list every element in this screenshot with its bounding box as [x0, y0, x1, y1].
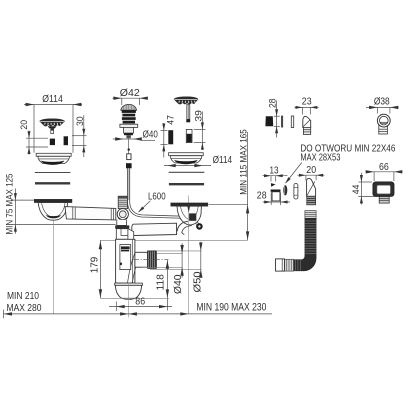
bottom line left end tick — [3, 310, 5, 319]
dimension O114 right: line and arrows — [164, 165, 211, 167]
pull rod dot — [128, 148, 130, 150]
strainer pin tip (black) — [186, 119, 190, 122]
washer bar (dark) — [281, 116, 283, 128]
overflow cover (rounded, dark) — [373, 182, 394, 197]
svg-text:20: 20 — [306, 165, 316, 176]
siphon neck — [117, 220, 127, 226]
siphon outlet ribbed socket — [148, 251, 157, 269]
svg-text:179: 179 — [89, 256, 100, 273]
bottom dimension line (common) — [4, 313, 272, 315]
left pipe joint lines — [72, 207, 74, 219]
right drain elbow arcs — [177, 221, 188, 231]
extension line O50 bottom — [150, 268, 201, 270]
svg-text:Ø38: Ø38 — [374, 97, 390, 108]
strainer bump left — [48, 126, 57, 128]
dimension 66: line, ext, arrows — [366, 172, 403, 181]
right drain inner block — [189, 213, 196, 220]
siphon tee right expansion — [128, 229, 134, 240]
right drain cable pulley — [196, 223, 203, 230]
datum line under cabinet — [100, 239, 247, 241]
dimension MIN 75 MAX 125: line, ext lines, arrows — [11, 189, 116, 234]
svg-text:Ø40: Ø40 — [143, 130, 158, 141]
svg-text:44: 44 — [351, 184, 362, 194]
overflow elbow front view: circles — [377, 114, 390, 127]
overflow cover inner window — [377, 185, 391, 194]
washer bar (outlined) — [291, 116, 293, 128]
extension line cup bottom — [100, 297, 169, 299]
svg-text:13: 13 — [270, 165, 279, 176]
right drain flange bar — [171, 203, 208, 206]
svg-text:28: 28 — [257, 191, 267, 202]
overflow clip wedge (black) — [271, 183, 276, 187]
dimension 20b: line, ext, arrows — [298, 175, 325, 180]
flange right black band — [174, 160, 197, 165]
extension line O40 top — [157, 252, 183, 254]
right drain insert arrow — [187, 204, 190, 212]
svg-text:L600: L600 — [148, 192, 166, 203]
svg-text:66: 66 — [379, 162, 389, 173]
siphon main body — [116, 239, 135, 283]
dimension 23: line, ext, arrows — [295, 107, 319, 114]
hook part B lower ribs — [307, 196, 316, 205]
corrugated hose: light rings left — [284, 259, 293, 271]
svg-text:MAX 280: MAX 280 — [7, 303, 42, 314]
siphon internal curve lines — [127, 253, 135, 291]
dimension MIN 115 MAX 165: line, ext, arrows — [209, 132, 248, 240]
siphon outlet pipe — [135, 252, 148, 267]
gasket right thick — [169, 183, 204, 185]
svg-text:Ø50: Ø50 — [192, 271, 203, 292]
siphon trap cup rim — [115, 283, 143, 285]
siphon clean-out box — [120, 245, 131, 270]
corrugated hose: light top rings — [305, 211, 316, 219]
label L600: leader and arrowhead — [139, 201, 151, 212]
gasket left thin — [35, 172, 71, 174]
svg-text:Ø114: Ø114 — [213, 155, 233, 166]
dimension 28 gasket: line, ticks, arrows — [274, 101, 280, 138]
pop-up knob cap — [121, 104, 137, 110]
dimension O40 pipe: line and arrows — [181, 243, 183, 277]
strainer basket left (dome) — [40, 119, 65, 127]
dimension 20: line, ticks, arrows — [26, 131, 48, 155]
left drain bowl dark band — [46, 215, 61, 219]
siphon adjuster wheel — [117, 209, 128, 220]
dimension 28b: line, ext, arrows — [263, 192, 290, 205]
corrugated hose: white end cap — [276, 259, 285, 271]
cup centerline — [128, 284, 130, 318]
svg-text:118: 118 — [155, 274, 166, 291]
left drain bowl — [38, 203, 67, 221]
dimension O114 left: line and arrows — [24, 105, 82, 153]
cable sheath (vertical + bend + horizontal run) — [128, 168, 130, 200]
washer pill (outlined) — [294, 184, 298, 200]
note leader line + arrow — [286, 163, 302, 184]
svg-text:MIN 190 MAX 230: MIN 190 MAX 230 — [196, 301, 266, 313]
svg-text:20: 20 — [19, 120, 30, 130]
svg-text:86: 86 — [135, 297, 145, 308]
dimension O50 pipe: line and arrows — [200, 242, 202, 278]
overflow gasket (black square) — [265, 116, 273, 126]
flange left (sink waste flange profile) — [36, 153, 71, 163]
svg-text:39: 39 — [194, 110, 205, 122]
right drain bowl — [177, 206, 201, 225]
svg-text:23: 23 — [302, 97, 312, 108]
dimension 118: line and arrows — [166, 260, 168, 311]
overflow cover stub — [379, 196, 389, 203]
left drain flange bar — [34, 199, 72, 202]
corrugated hose: dark body (vertical + elbow + horizontal) — [294, 218, 317, 270]
svg-text:Ø114: Ø114 — [42, 94, 63, 105]
extension line O50 top — [157, 250, 202, 252]
overflow hole gasket (dark oval) — [283, 185, 287, 195]
left drain outlet pipe — [65, 207, 116, 220]
flange right (sink waste flange profile) — [169, 153, 204, 163]
right drain centerline over bowl — [188, 207, 190, 226]
pop-up knob nut — [124, 127, 134, 133]
pull rod upper sleeve — [127, 154, 131, 160]
strainer stem right (long pin) — [187, 104, 190, 119]
pop-up knob flange — [120, 124, 138, 127]
overflow spigot body — [272, 192, 280, 201]
dimension 179: line and arrows — [99, 240, 101, 298]
svg-text:MIN 210: MIN 210 — [7, 291, 39, 302]
gasket left thick — [35, 182, 70, 184]
siphon cable adjuster (ribbed) — [118, 196, 127, 208]
siphon trap cup — [116, 285, 142, 298]
dimension O40 knob: line and arrows — [113, 139, 155, 140]
hook part A lower ribs — [303, 127, 310, 134]
left drain centerline — [52, 203, 54, 314]
right drain outlet pipe (telescopic, sloping) — [132, 223, 177, 235]
right drain centerline — [188, 196, 190, 314]
strainer basket right (dome) — [174, 97, 198, 105]
strainer stem left — [51, 128, 54, 133]
gasket right thin — [169, 171, 205, 173]
svg-text:30: 30 — [75, 116, 86, 126]
dimension 44: line, ticks, arrows — [358, 173, 378, 205]
svg-text:MIN 75 MAX 125: MIN 75 MAX 125 — [3, 174, 14, 235]
pull rod pin wire — [128, 138, 130, 154]
dimension 39: line, ticks, arrows — [194, 112, 206, 151]
dimension O38: line, ext, arrows — [366, 107, 399, 113]
pop-up knob tip — [126, 135, 130, 138]
flange left black band — [41, 160, 64, 165]
svg-text:Ø42: Ø42 — [120, 88, 140, 99]
siphon upper box — [116, 229, 128, 240]
pull rod black block — [126, 163, 132, 168]
dimension 30: line, ticks, arrows — [72, 115, 87, 157]
dimension 13: line, ext, arrows — [263, 176, 288, 182]
overflow spigot top bar (black) — [271, 190, 281, 192]
gland nut cut right-left (black bar) — [168, 130, 173, 144]
hose rib lines vertical section — [296, 221, 317, 271]
gland center pin (outline + black lower) — [186, 129, 192, 142]
pop-up knob threaded rings — [122, 110, 136, 113]
siphon tee flange (dark) — [115, 225, 129, 228]
screw section cut right (black) — [64, 136, 68, 145]
extension line O40 bottom — [142, 266, 183, 268]
svg-text:Ø40: Ø40 — [173, 274, 184, 294]
right pipe end joint line — [176, 223, 178, 234]
svg-text:MIN 115 MAX 165: MIN 115 MAX 165 — [238, 129, 249, 195]
screw section cut left (black) — [50, 139, 55, 146]
svg-text:MAX 28X53: MAX 28X53 — [300, 153, 340, 164]
dimension O42: line, ext, arrows — [112, 98, 147, 105]
dimension 47: line, ticks, arrows — [161, 123, 168, 158]
bottom line arrows — [4, 312, 12, 315]
overflow elbow front view: stub below — [379, 124, 388, 134]
pipe centerline (dash-dot) — [133, 259, 169, 261]
overflow elbow side view (hook part A) — [303, 116, 311, 127]
svg-text:47: 47 — [165, 115, 176, 125]
dimension 86: line, ext, arrows — [109, 302, 172, 312]
overflow elbow side view (hook part B) — [307, 178, 316, 196]
